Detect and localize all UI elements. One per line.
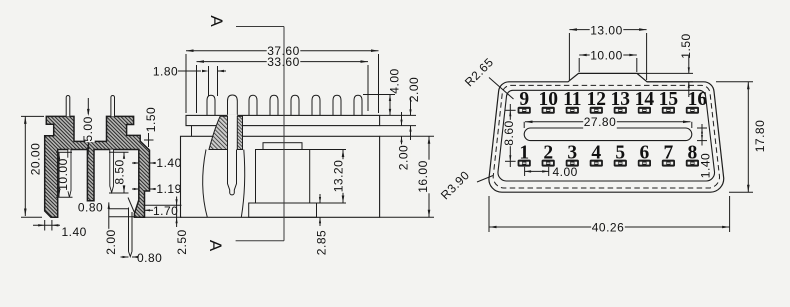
left view sectioned housing body (hatched cross-section): [45, 116, 150, 217]
dim 4.00 (pin height above flange): [363, 68, 402, 115]
left view solder tail under right leg: [128, 198, 134, 257]
dim 1.80 (pin offset): [153, 65, 226, 96]
right view center slot: [524, 128, 692, 141]
svg-text:9: 9: [519, 89, 529, 110]
svg-text:1.40: 1.40: [62, 225, 87, 239]
dim 27.80 (slot width): [524, 115, 692, 129]
dim 20.00 (left view overall height): [21, 116, 44, 217]
section label A (top): [207, 15, 226, 27]
middle view body rectangle: [181, 136, 380, 217]
dim 13.00 (key base width): [569, 23, 646, 80]
svg-text:0.80: 0.80: [78, 201, 103, 215]
svg-text:2.85: 2.85: [315, 230, 329, 255]
middle view boss cap: [263, 143, 302, 150]
svg-text:15: 15: [659, 89, 679, 110]
dim 1.40 (left leg width): [33, 220, 87, 239]
svg-text:2: 2: [543, 143, 553, 164]
dim 4.00 (pin pitch): [525, 165, 578, 179]
svg-text:12: 12: [587, 89, 607, 110]
middle view cavity left curve: [203, 150, 208, 218]
middle view long contact pin: [228, 150, 237, 195]
radius label R3.90 (bottom corner): [438, 168, 493, 202]
left view top pin 1: [66, 95, 70, 116]
svg-text:17.80: 17.80: [753, 120, 767, 153]
dim 8.60 (pin row spacing): [502, 104, 516, 167]
svg-text:2.50: 2.50: [175, 229, 189, 254]
left view pin tail 1: [68, 150, 71, 198]
dim 2.00 (flange thickness): [380, 77, 421, 140]
svg-text:5: 5: [615, 143, 625, 164]
dim 1.40 (slot height): [697, 124, 713, 178]
dim 10.00 (key top width): [579, 49, 637, 72]
svg-text:2.00: 2.00: [397, 145, 411, 170]
svg-text:16: 16: [688, 89, 708, 110]
right view outer shell outline: [489, 73, 724, 192]
dim 8.50 (pin tail length right): [109, 152, 129, 193]
dim 2.00 (solder tail): [104, 202, 134, 255]
svg-text:1.80: 1.80: [153, 65, 178, 79]
right view bottom pin contacts row (pins 1-8): [518, 160, 699, 167]
svg-text:1.19: 1.19: [156, 182, 181, 196]
dim 37.60 (flange width): [186, 44, 379, 113]
dim 0.80 (solder tail width): [121, 251, 163, 265]
dim 13.20 (boss height): [310, 150, 346, 204]
svg-text:A: A: [206, 240, 225, 252]
svg-text:5.00: 5.00: [81, 116, 95, 141]
middle view neck edge: [191, 126, 193, 137]
right view top pin contacts row (pins 9-16): [518, 107, 699, 114]
svg-text:2.00: 2.00: [104, 229, 118, 254]
svg-text:4: 4: [591, 143, 601, 164]
dim 1.40 (right wall): [132, 156, 182, 170]
svg-text:A: A: [207, 15, 226, 27]
svg-text:1.50: 1.50: [679, 33, 693, 58]
dim 33.60 (pin span): [197, 55, 369, 113]
svg-text:8.60: 8.60: [502, 120, 516, 145]
dim 2.85 (boss foot height): [315, 194, 329, 256]
section line A-A vertical: [236, 27, 284, 241]
dim 40.26 (connector width): [489, 196, 730, 235]
middle view hatched wedge (sectioned housing): [209, 116, 228, 149]
section label A (bottom): [206, 240, 225, 252]
svg-text:1.50: 1.50: [144, 107, 158, 132]
dim 2.00 (neck height): [397, 112, 411, 171]
middle view flange bar: [186, 115, 380, 125]
dim 17.80 (connector height): [716, 82, 767, 192]
right view pin numbers 1-8: [519, 143, 697, 164]
svg-text:2.00: 2.00: [407, 77, 421, 102]
svg-text:1.40: 1.40: [699, 153, 713, 178]
svg-text:11: 11: [563, 89, 581, 110]
svg-text:1.70: 1.70: [153, 204, 178, 218]
dim 0.80 (middle leg pin width): [77, 201, 103, 215]
svg-text:27.80: 27.80: [584, 115, 617, 129]
svg-text:1.40: 1.40: [156, 156, 181, 170]
middle view hatched pin strip (sectioned pin): [237, 116, 242, 149]
svg-text:8.50: 8.50: [112, 159, 126, 184]
svg-text:8: 8: [688, 143, 698, 164]
svg-text:3: 3: [567, 143, 577, 164]
dim 10.00 (pin tail length left): [56, 152, 73, 197]
middle view pin row (8 round-top pins): [207, 95, 362, 115]
svg-text:14: 14: [635, 89, 655, 110]
middle view pin channel (white gap in flange): [228, 115, 238, 150]
middle view boss foot: [249, 203, 317, 217]
dim 1.50 (key height): [637, 33, 693, 97]
dim 1.70 (leg bottom): [145, 204, 180, 218]
svg-text:10.00: 10.00: [590, 49, 623, 63]
svg-text:20.00: 20.00: [29, 143, 43, 176]
svg-text:16.00: 16.00: [416, 160, 430, 193]
svg-text:1: 1: [519, 143, 529, 164]
svg-text:40.26: 40.26: [592, 221, 625, 235]
svg-text:13.00: 13.00: [590, 23, 623, 37]
dim 2.50 (right leg chamfer): [145, 197, 190, 255]
svg-text:13: 13: [611, 89, 631, 110]
radius label R2.65 (top corner): [462, 55, 513, 99]
svg-text:7: 7: [664, 143, 674, 164]
svg-text:10: 10: [538, 89, 558, 110]
svg-text:4.00: 4.00: [388, 68, 402, 93]
svg-text:13.20: 13.20: [332, 160, 346, 193]
dim 5.00 (center gap depth): [81, 98, 95, 154]
svg-text:6: 6: [640, 143, 650, 164]
left view top pin 2: [111, 96, 115, 117]
dim 1.19 (right wall lower): [132, 182, 182, 196]
dim 1.50 (right step): [144, 106, 158, 147]
svg-text:10.00: 10.00: [56, 158, 70, 191]
dim 16.00 (body height): [380, 136, 434, 217]
middle view boss main block: [256, 150, 310, 204]
right view hidden edge outline (dashed): [493, 85, 719, 188]
right view inner face outline: [498, 90, 715, 181]
right view pin numbers 9-16: [519, 89, 707, 110]
middle view cavity right curve: [241, 150, 244, 218]
left view pin tail 2: [110, 150, 114, 193]
svg-text:0.80: 0.80: [137, 251, 162, 265]
svg-text:4.00: 4.00: [553, 165, 578, 179]
